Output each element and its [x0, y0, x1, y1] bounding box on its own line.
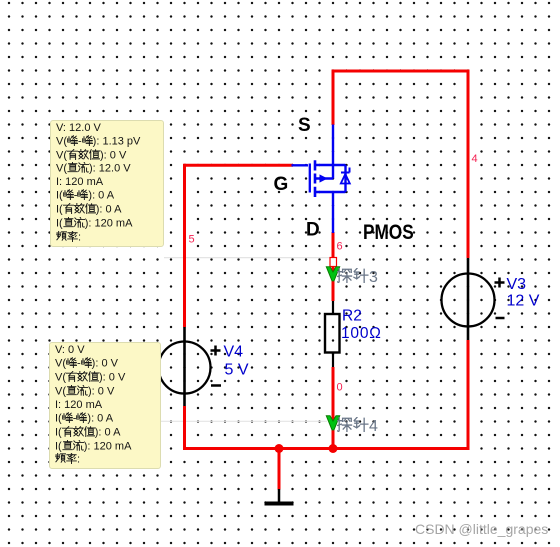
transistor Q1 PMOS	[292, 125, 350, 234]
gate bar	[309, 164, 311, 193]
junction at ground	[275, 444, 284, 453]
body right vertical	[344, 165, 346, 192]
body middle bar with arrow	[315, 177, 333, 179]
source top bar	[315, 164, 346, 166]
svg-text:D: D	[306, 220, 320, 241]
wire top horizontal	[332, 70, 470, 73]
svg-text:S: S	[298, 115, 311, 136]
channel segments	[314, 160, 317, 197]
drain bottom bar	[315, 191, 346, 193]
wire source vertical red segment	[332, 70, 335, 126]
probe 4 label	[337, 417, 378, 435]
svg-text:PMOS: PMOS	[363, 222, 414, 245]
net 0	[337, 382, 343, 394]
label PMOS	[363, 222, 414, 245]
pin label S	[298, 115, 311, 136]
wire right vertical lower	[467, 340, 470, 450]
wire drain blue segment	[332, 192, 334, 233]
wire bottom horizontal	[183, 447, 470, 450]
probe readout box V3	[50, 120, 164, 247]
svg-text:12 V: 12 V	[507, 293, 540, 310]
label V4 value 5 V	[224, 344, 249, 379]
probe 4 arrow	[326, 416, 339, 430]
probe readout box V4	[49, 342, 161, 469]
wire drain to resistor	[332, 232, 335, 301]
svg-text:5 V: 5 V	[225, 362, 249, 379]
body diode	[341, 168, 350, 173]
svg-text:100Ω: 100Ω	[341, 325, 382, 342]
net 6	[337, 241, 343, 253]
ground	[265, 489, 294, 504]
probe 3 attach square	[330, 258, 337, 267]
voltage source V3	[442, 258, 505, 340]
resistor R2	[325, 301, 340, 367]
probe 3 label	[337, 268, 378, 286]
svg-text:5: 5	[189, 234, 195, 246]
label V3 value 12 V	[507, 276, 540, 310]
svg-text:V4: V4	[224, 344, 244, 361]
svg-text:G: G	[274, 174, 289, 195]
probe 3 arrow	[326, 267, 339, 281]
net 5	[189, 234, 195, 246]
wire right vertical upper	[467, 70, 470, 259]
wire resistor to bottom	[332, 367, 335, 450]
net 4	[472, 153, 478, 165]
voltage source V4	[159, 327, 222, 406]
wire left vertical lower	[183, 406, 186, 450]
label R2 value 100ohm	[341, 308, 382, 343]
wire ground stub red	[278, 449, 281, 490]
wire gate blue lead	[292, 164, 309, 166]
wire left vertical upper	[183, 164, 186, 327]
svg-text:V3: V3	[507, 276, 527, 293]
svg-text:4: 4	[472, 153, 478, 165]
junction at probe 4	[329, 444, 338, 453]
pin label G	[274, 174, 289, 195]
wire gate horizontal red	[185, 164, 294, 167]
watermark	[415, 521, 548, 537]
pin label D	[306, 220, 320, 241]
probe 3 crosshair line	[164, 257, 330, 259]
svg-text:6: 6	[337, 241, 343, 253]
svg-text:R2: R2	[342, 308, 362, 325]
probe 4 crosshair line	[161, 420, 327, 422]
svg-text:0: 0	[337, 382, 343, 394]
wire source blue segment	[332, 125, 334, 179]
